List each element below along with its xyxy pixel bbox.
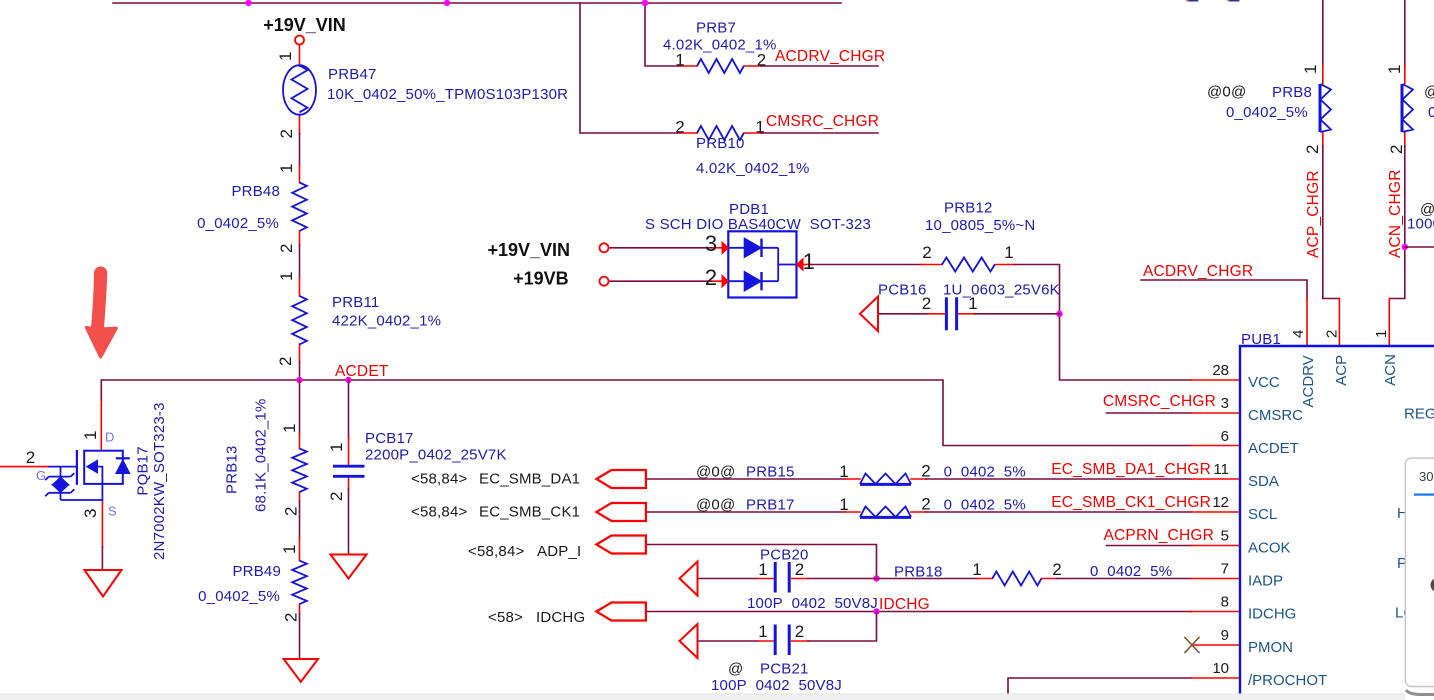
wire PQB17 source to ground (101, 547, 103, 570)
svg-text:1: 1 (839, 495, 848, 514)
resistor PRB15 (zero-ohm style) (860, 474, 911, 485)
wire PCB17 pin2 stub (348, 478, 350, 489)
wire SCL pin12 red stub (1191, 511, 1240, 513)
ground at PCB21 (680, 624, 698, 658)
wire EC_SMB_CK1_CHGR to pin12 (926, 511, 1191, 513)
svg-text:1: 1 (280, 424, 299, 433)
svg-text:2: 2 (327, 492, 346, 501)
svg-text:0 0402 5%: 0 0402 5% (944, 464, 1026, 481)
wire ACPRN_CHGR to pin5 (1107, 545, 1192, 547)
wire ACOK pin5 red stub (1191, 545, 1240, 547)
ground at PCB16 (860, 297, 878, 332)
clipped text top edge 1 (1186, 0, 1198, 2)
svg-text:+19VB: +19VB (513, 269, 569, 289)
wire CMSRC pin3 red stub (1191, 412, 1240, 414)
svg-text:PRB18: PRB18 (894, 564, 943, 581)
wire PRB9 pin2 stub (1404, 132, 1406, 146)
wire PCB20 pin1 stub (758, 578, 773, 580)
wire PRB49 to ground (299, 614, 301, 659)
resistor PRB13 (292, 449, 307, 493)
wire PRB11 to ACDET rail (299, 362, 301, 380)
svg-text:1: 1 (276, 52, 295, 61)
wire ACP column top (1322, 0, 1324, 66)
svg-text:2: 2 (922, 294, 931, 313)
svg-text:2: 2 (1324, 330, 1341, 338)
ground at PQB17 (85, 570, 122, 597)
svg-text:0 0402 5%: 0 0402 5% (1090, 563, 1172, 580)
wire PDB1 pin1 red stub (803, 264, 811, 266)
junction dot ACN branch (1402, 244, 1408, 250)
pin arrow PDB1 pin3 (722, 242, 728, 254)
svg-text:1: 1 (81, 431, 100, 440)
svg-text:+19V_VIN: +19V_VIN (263, 15, 346, 35)
wire PRB47 to PRB48 (299, 134, 301, 165)
svg-text:1: 1 (758, 560, 767, 579)
junction dot top rail 1 (245, 0, 251, 6)
wire pin2 red stub (1338, 299, 1340, 347)
wire +19V_VIN port to PDB1 (609, 247, 713, 249)
popup panel (1405, 458, 1434, 695)
wire PRB49 pin1 stub (299, 538, 301, 561)
wire pin4 red stub (1306, 299, 1308, 347)
svg-text:@0@: @0@ (696, 497, 735, 514)
wire PCB20 pin2 stub (792, 578, 808, 580)
svg-text:2: 2 (795, 622, 804, 641)
wire ACP_CHGR down to jog (1323, 146, 1340, 299)
wire PDB1 pin1 to PRB12 (811, 264, 921, 266)
svg-text:ACN_CHGR: ACN_CHGR (1387, 169, 1404, 258)
svg-text:2: 2 (922, 243, 931, 262)
wire PCB21 up to IDCHG node (808, 612, 877, 642)
svg-text:@0@: @0@ (1207, 84, 1246, 101)
no-connect X at PMON (1185, 638, 1199, 653)
diode PDB1 BAS40CW (728, 231, 796, 297)
off-page arrow ADP_I (596, 536, 646, 554)
svg-text:2: 2 (757, 51, 766, 70)
junction dot top rail 2 (444, 0, 450, 6)
svg-text:CMSRC: CMSRC (1248, 407, 1303, 424)
resistor PRB8 (zero-ohm style vertical) (1320, 84, 1331, 132)
svg-text:1U_0603_25V6K: 1U_0603_25V6K (943, 282, 1060, 299)
svg-text:REGN: REGN (1404, 406, 1434, 423)
svg-text:4.02K_0402_1%: 4.02K_0402_1% (696, 160, 810, 177)
resistor PRB48 (292, 183, 307, 231)
svg-text:<58,84>: <58,84> (411, 504, 467, 521)
svg-text:11: 11 (1213, 461, 1229, 478)
resistor PRB9 (zero-ohm style vertical) (1402, 84, 1413, 132)
svg-text:2: 2 (921, 462, 930, 481)
svg-text:IDCHG: IDCHG (879, 596, 930, 613)
popup tab underline (1414, 494, 1434, 496)
svg-text:ACDRV_CHGR: ACDRV_CHGR (1143, 263, 1253, 280)
wire CMSRC_CHGR from PRB10 (761, 132, 878, 134)
svg-text:ACP: ACP (1333, 355, 1350, 386)
svg-text:6: 6 (1221, 428, 1229, 445)
svg-text:ACDRV_CHGR: ACDRV_CHGR (775, 48, 885, 65)
capacitor PCB21 (775, 625, 789, 656)
wire PCB16 to VCC node (975, 313, 1060, 315)
IC PUB1 border (1240, 346, 1434, 700)
svg-text:@: @ (728, 661, 743, 678)
svg-text:S SCH DIO BAS40CW SOT-323: S SCH DIO BAS40CW SOT-323 (645, 216, 871, 233)
wire PRB13 to PRB49 (299, 501, 301, 538)
svg-text:ACP_CHGR: ACP_CHGR (1305, 170, 1322, 258)
wire PRB49 pin2 stub (299, 604, 301, 614)
capacitor PCB20 (775, 562, 789, 593)
svg-text:5: 5 (1221, 528, 1229, 545)
svg-text:1000P: 1000P (1407, 216, 1434, 233)
svg-text:ACDET: ACDET (1248, 440, 1299, 457)
svg-text:PQB17: PQB17 (135, 446, 152, 495)
svg-text:D: D (105, 430, 114, 445)
svg-text:<58>: <58> (488, 609, 523, 626)
junction dot ADP_I node (873, 575, 879, 581)
svg-text:2: 2 (277, 129, 296, 138)
svg-text:8: 8 (1221, 594, 1229, 611)
svg-text:10_0805_5%~N: 10_0805_5%~N (925, 217, 1035, 234)
svg-text:1: 1 (803, 249, 815, 274)
svg-text:2: 2 (675, 118, 684, 137)
svg-text:ACDRV: ACDRV (1300, 355, 1317, 407)
svg-text:PRB8: PRB8 (1272, 84, 1312, 101)
wire /PROCHOT pin10 red stub (1191, 677, 1240, 679)
svg-text:2: 2 (1052, 560, 1061, 579)
wire PQB17 gate red stub (0, 466, 48, 468)
wire PRB10 pin2 stub (680, 132, 697, 134)
wire pin1 red stub (1388, 299, 1390, 347)
wire PCB17 top maroon (348, 380, 350, 438)
svg-text:1: 1 (277, 272, 296, 281)
off-page arrow IDCHG (596, 603, 646, 621)
wire +19VB red stub into PDB1 pin2 (713, 280, 727, 282)
wire SDA pin11 red stub (1191, 478, 1240, 480)
wire vertical branch to PRB10 (580, 3, 680, 133)
svg-text:<58,84>: <58,84> (411, 471, 467, 488)
svg-text:9: 9 (1221, 627, 1229, 644)
pin arrow PDB1 pin2 (722, 275, 728, 287)
svg-text:2: 2 (277, 244, 296, 253)
wire PRB12 pin2 stub (921, 264, 942, 266)
resistor PRB10 (697, 126, 744, 140)
wire PCB16 ground to cap (878, 313, 928, 315)
wire PRB15 pin2 stub (911, 478, 926, 480)
svg-text:2: 2 (26, 448, 35, 467)
svg-text:100P 0402 50V8J: 100P 0402 50V8J (747, 595, 878, 612)
wire ACDRV_CHGR from PRB7 (761, 65, 878, 67)
svg-text:PCB17: PCB17 (365, 430, 414, 447)
svg-text:IDCHG: IDCHG (1248, 606, 1296, 623)
wire ACDET pin6 red stub (1191, 445, 1240, 447)
wire PRB13 pin1 stub (299, 434, 301, 449)
wire PCB21 pin1 stub (758, 640, 773, 642)
svg-text:PRB7: PRB7 (696, 20, 736, 37)
resistor PRB49 (292, 561, 307, 605)
ground at PCB17 (331, 555, 367, 579)
svg-text:IDCHG: IDCHG (536, 609, 585, 626)
resistor PRB7 (697, 59, 744, 73)
svg-text:PRB15: PRB15 (746, 464, 795, 481)
wire PRB8 pin1 stub (1322, 66, 1324, 84)
wire PRB17 pin2 stub (911, 511, 926, 513)
svg-text:@0@: @0@ (696, 464, 735, 481)
svg-text:2: 2 (921, 495, 930, 514)
wire PCB16 pin1 stub (958, 313, 975, 315)
junction dot ACDET at PCB17 (345, 377, 351, 383)
svg-text:0_0402_5%: 0_0402_5% (197, 215, 279, 232)
svg-text:PCB21: PCB21 (760, 661, 809, 678)
svg-text:1: 1 (972, 560, 981, 579)
svg-text:1: 1 (1301, 65, 1320, 74)
clipped text top edge 2 (1227, 0, 1239, 2)
power port +19V_VIN at PDB1 (600, 243, 609, 252)
capacitor PCB17 (333, 466, 365, 476)
svg-text:10: 10 (1212, 660, 1229, 677)
capacitor PCB16 (946, 297, 956, 330)
svg-text:0_0402_5%: 0_0402_5% (1226, 104, 1308, 121)
wire EC_SMB_DA1_CHGR to pin11 (926, 478, 1191, 480)
svg-text:0 0402 5%: 0 0402 5% (944, 497, 1026, 514)
svg-text:S: S (108, 504, 117, 519)
svg-text:2: 2 (276, 357, 295, 366)
wire PCB17 to ground (348, 489, 350, 555)
svg-text:2: 2 (282, 613, 301, 622)
svg-text:EC_SMB_DA1: EC_SMB_DA1 (479, 471, 580, 488)
pin arrow PDB1 pin1 (797, 259, 804, 271)
off-page arrow EC_SMB_DA1 (596, 470, 646, 488)
svg-text:1: 1 (675, 51, 684, 70)
svg-text:2: 2 (282, 507, 301, 516)
wire PCB21 ground side (698, 640, 759, 642)
resistor PRB11 (292, 296, 307, 344)
wire PQB17 source red stub (101, 500, 103, 547)
svg-text:ACOK: ACOK (1248, 540, 1291, 557)
wire ACDRV_CHGR to chip pin4 (1141, 280, 1307, 299)
wire PRB11 pin1 stub (299, 278, 301, 296)
off-page arrow EC_SMB_CK1 (596, 503, 646, 521)
wire PRB12 pin1 stub (995, 264, 1014, 266)
svg-text:CMSRC_CHGR: CMSRC_CHGR (1103, 393, 1216, 410)
svg-text:2: 2 (795, 560, 804, 579)
wire IADP pin7 red stub (1191, 578, 1240, 580)
wire +19VB port to PDB1 (609, 280, 713, 282)
svg-text:<58,84>: <58,84> (468, 543, 524, 560)
wire PCB21 pin2 stub (792, 640, 808, 642)
svg-text:PRB49: PRB49 (232, 563, 281, 580)
svg-text:422K_0402_1%: 422K_0402_1% (332, 313, 441, 330)
svg-text:VCC: VCC (1248, 374, 1280, 391)
svg-text:ACPRN_CHGR: ACPRN_CHGR (1103, 527, 1214, 544)
svg-text:3: 3 (1221, 395, 1229, 412)
wire PCB20 to node (808, 578, 877, 580)
wire IDCHG row (646, 611, 1191, 613)
wire PRB11 pin2 stub (299, 344, 301, 362)
ground at PRB49 (284, 659, 318, 682)
power port +19VB at PDB1 (600, 277, 609, 286)
svg-text:PCB16: PCB16 (878, 282, 927, 299)
wire PQB17 drain red stub (100, 402, 102, 451)
wire PRB48 pin1 stub (299, 165, 301, 183)
svg-text:2: 2 (1387, 145, 1406, 154)
ground at PCB20 (680, 562, 698, 596)
svg-text:1: 1 (758, 622, 767, 641)
svg-text:30: 30 (1419, 469, 1433, 484)
svg-text:1: 1 (968, 294, 977, 313)
svg-text:PRB47: PRB47 (328, 66, 377, 83)
svg-text:12: 12 (1212, 494, 1229, 511)
svg-text:PRB11: PRB11 (332, 294, 379, 311)
svg-text:1: 1 (755, 118, 764, 137)
svg-text:PRB12: PRB12 (944, 200, 993, 217)
svg-text:1: 1 (280, 545, 299, 554)
resistor PRB17 (zero-ohm style) (860, 507, 911, 518)
svg-text:2: 2 (705, 265, 717, 290)
junction dot top rail 3 (642, 0, 648, 6)
wire ADP_I from arrow down to node (646, 545, 877, 579)
wire PRB18 pin1 stub (977, 578, 992, 580)
svg-text:@0@: @0@ (1424, 84, 1434, 101)
red annotation arrow (86, 268, 116, 357)
svg-text:1: 1 (839, 462, 848, 481)
wire ACDET down to PQB17 drain maroon (100, 380, 102, 402)
wire vertical branch to PRB7 (645, 3, 680, 66)
wire PRB48 pin2 stub (299, 231, 301, 245)
wire EC_SMB_CK1 row maroon left (646, 511, 845, 513)
wire PCB17 pin1 stub (348, 438, 350, 465)
svg-text:+19V_VIN: +19V_VIN (487, 240, 570, 260)
wire PRB13 top maroon (299, 380, 301, 434)
svg-text:PRB13: PRB13 (224, 445, 241, 494)
wire PRB47 pin2 stub (299, 115, 301, 135)
svg-text:0_0402_5%: 0_0402_5% (1428, 104, 1434, 121)
svg-text:PRB48: PRB48 (231, 183, 280, 200)
svg-text:1: 1 (1385, 65, 1404, 74)
wire ACN column top (1404, 0, 1406, 66)
svg-text:ADP_I: ADP_I (537, 543, 581, 560)
svg-text:EC_SMB_CK1_CHGR: EC_SMB_CK1_CHGR (1051, 494, 1211, 511)
svg-text:PRB10: PRB10 (696, 135, 745, 152)
resistor PRB12 (942, 258, 995, 272)
wire top rail net (113, 2, 841, 4)
junction dot IDCHG node (873, 608, 879, 614)
svg-text:28: 28 (1212, 362, 1229, 379)
wire node to PRB18 (877, 578, 978, 580)
svg-text:PRB17: PRB17 (746, 497, 795, 514)
wire IDCHG pin8 red stub (1191, 611, 1240, 613)
svg-text:PUB1: PUB1 (1241, 331, 1281, 348)
svg-text:1: 1 (277, 164, 296, 173)
wire PRB12 to VCC net corner (1014, 265, 1191, 381)
svg-text:68.1K_0402_1%: 68.1K_0402_1% (253, 398, 270, 512)
svg-text:100P 0402 50V8J: 100P 0402 50V8J (711, 677, 842, 694)
svg-text:1: 1 (1004, 243, 1013, 262)
svg-text:10K_0402_50%_TPM0S103P130R: 10K_0402_50%_TPM0S103P130R (327, 86, 568, 103)
junction dot PCB16 node (1056, 311, 1062, 317)
popup icon circle (1431, 578, 1434, 592)
svg-text:0_0402_5%: 0_0402_5% (198, 588, 280, 605)
wire CMSRC_CHGR to pin3 (1107, 412, 1192, 414)
svg-text:SCL: SCL (1248, 506, 1277, 523)
wire PRB18 to pin7 (1056, 578, 1191, 580)
wire ACN branch to right edge (1405, 246, 1434, 248)
wire PRB7 pin2 stub (744, 65, 761, 67)
wire PRB13 pin2 stub (299, 492, 301, 501)
thermistor PRB47 (283, 65, 316, 115)
svg-text:ACN: ACN (1382, 354, 1399, 386)
svg-text:2200P_0402_25V7K: 2200P_0402_25V7K (365, 447, 507, 464)
wire PRB9 pin1 stub (1404, 66, 1406, 84)
wire EC_SMB_DA1 row maroon left (646, 478, 845, 480)
svg-text:4: 4 (1290, 330, 1307, 338)
wire PRB7 pin1 stub (680, 65, 697, 67)
wire PRB17 pin1 stub (845, 511, 860, 513)
wire ACN_CHGR down to jog (1389, 146, 1405, 299)
svg-text:2N7002KW_SOT323-3: 2N7002KW_SOT323-3 (151, 402, 168, 560)
wire PRB8 pin2 stub (1322, 132, 1324, 146)
svg-text:2: 2 (1303, 145, 1322, 154)
svg-text:1: 1 (1373, 330, 1390, 338)
wire +19V_VIN red stub into PDB1 pin3 (713, 247, 727, 249)
svg-text:3: 3 (81, 509, 100, 518)
svg-text:/PROCHOT: /PROCHOT (1248, 672, 1327, 689)
wire PMON pin9 red stub (1192, 644, 1240, 646)
resistor PRB18 (992, 572, 1041, 586)
svg-text:EC_SMB_CK1: EC_SMB_CK1 (479, 504, 580, 521)
wire /PROCHOT from bottom (1008, 678, 1191, 700)
svg-text:ACDET: ACDET (335, 363, 389, 380)
wire PCB16 pin2 stub (928, 313, 945, 315)
wire PRB15 pin1 stub (845, 478, 860, 480)
svg-text:1: 1 (327, 443, 346, 452)
wire PRB48 to PRB11 (299, 245, 301, 278)
wire PRB18 pin2 stub (1041, 578, 1056, 580)
wire +19V_VIN column red stub port to PRB47 (299, 45, 301, 67)
svg-text:3: 3 (705, 231, 717, 256)
svg-text:7: 7 (1221, 561, 1229, 578)
wire PRB10 pin1 stub (744, 132, 761, 134)
svg-text:CMSRC_CHGR: CMSRC_CHGR (766, 113, 879, 130)
power port +19V_VIN top (295, 36, 304, 45)
svg-text:SDA: SDA (1248, 473, 1279, 490)
svg-text:EC_SMB_DA1_CHGR: EC_SMB_DA1_CHGR (1051, 461, 1211, 478)
wire ACDET rail (101, 380, 1191, 446)
wire VCC pin28 red stub (1191, 379, 1240, 381)
svg-text:G: G (36, 468, 46, 483)
bottom scrollbar band (0, 694, 1405, 700)
junction dot ACDET at PRB13 (296, 377, 302, 383)
svg-text:IADP: IADP (1248, 573, 1283, 590)
transistor PQB17 2N7002KW (45, 450, 130, 500)
wire PCB20 ground side (698, 578, 759, 580)
svg-text:PMON: PMON (1248, 639, 1293, 656)
